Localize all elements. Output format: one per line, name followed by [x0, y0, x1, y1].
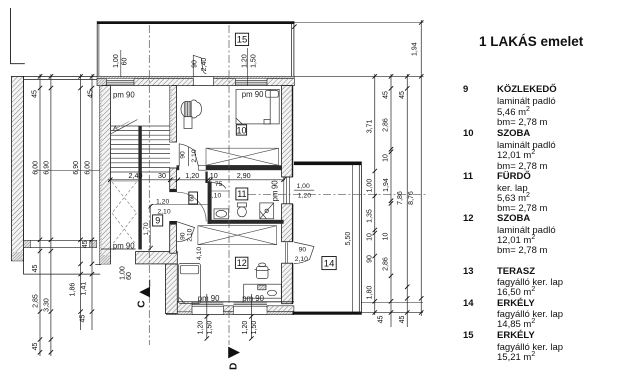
neighbour wall hatched strip — [12, 76, 24, 260]
plant pot room 12 — [255, 263, 271, 279]
corridor door swing arc (1,20) — [177, 192, 206, 221]
left dim ticks — [38, 74, 94, 354]
room 10 bottom wall (solid) — [206, 165, 282, 170]
balcony 14 right edge — [358, 164, 360, 312]
balcony 14 inner line (5,50 dim) — [352, 165, 354, 312]
exterior top wall band — [97, 75, 294, 77]
door labels — [143, 149, 352, 263]
balcony 15 right edge — [291, 24, 293, 77]
horizontal dash-dot through bath window — [248, 193, 428, 195]
terrace 13 boundary — [24, 76, 101, 274]
bed room 10 — [236, 89, 279, 124]
window centre stubs above top wall — [120, 50, 122, 77]
dresser room 12 — [244, 284, 282, 298]
stair break line — [111, 120, 138, 135]
bed room 12 — [179, 264, 201, 304]
toilet bath 11 — [237, 203, 246, 217]
balcony 15 left edge — [96, 21, 98, 76]
east wall below balcony door — [282, 263, 293, 304]
bottom window centre dim lines — [207, 294, 252, 338]
left dim texts — [32, 90, 95, 350]
door fan room12 entry (90/2,10) — [177, 222, 195, 242]
section marker D — [228, 347, 240, 359]
stair west wall segments (between stair hall and rooms) — [170, 86, 177, 142]
terrace fence double line — [24, 239, 97, 241]
right dim ticks — [292, 20, 423, 314]
stair up arrow — [113, 126, 118, 131]
bath window east (pm) — [282, 177, 292, 204]
balcony 14 bottom edge — [293, 312, 362, 315]
balcony 14 window split line — [294, 189, 314, 191]
stair hall bottom wall band — [136, 252, 178, 264]
exterior east wall upper (room 10 / bath) — [282, 86, 293, 177]
right dim texts — [367, 42, 419, 323]
bath bottom wall — [208, 220, 284, 224]
room number boxes — [153, 33, 337, 269]
door fan balcony 14 (90/2,10) — [285, 242, 314, 264]
bath west partition wall — [208, 182, 212, 224]
sink bath 11 — [214, 209, 229, 219]
door fan room 10 (90/2,10) — [179, 144, 198, 167]
stair handrail bar — [138, 126, 141, 250]
balcony 15 labels — [113, 54, 258, 71]
shower bath 11 — [260, 203, 274, 219]
pm window labels — [113, 90, 280, 303]
stair void X (dashed) — [111, 180, 139, 182]
east wall between bath window and balcony door — [282, 204, 293, 242]
stair treads — [111, 126, 171, 172]
wardrobe X room 10 — [206, 148, 279, 165]
balcony 14 top edge thick — [294, 162, 362, 166]
window W2 top (1,20/1,50) — [235, 80, 267, 84]
bottom wall band — [167, 301, 294, 303]
centre dash-dot line A — [148, 25, 150, 345]
terrace top railing — [24, 76, 100, 78]
window W1 top (1,00/60) — [107, 80, 135, 84]
window W3 bottom — [192, 303, 223, 306]
door fan balcony 15 (90/2,40) — [193, 55, 206, 76]
balcony 15 top thick edge — [97, 21, 294, 24]
room 12 west wall — [165, 264, 177, 314]
door fan bath (75/2,10) — [208, 182, 230, 191]
section marker C — [139, 287, 150, 298]
exterior left wall — [99, 86, 110, 264]
centre dash-dot line B — [228, 25, 230, 345]
wardrobe X room 12 — [198, 226, 277, 245]
window W4 bottom — [234, 303, 268, 306]
left dimension lines — [33, 74, 100, 356]
neighbour building corner line top-left — [11, 8, 25, 64]
bath top chain line — [108, 179, 285, 181]
right dimension lines — [294, 20, 423, 327]
interior dim chain — [108, 178, 286, 182]
desk and chair room 10 — [181, 100, 202, 129]
